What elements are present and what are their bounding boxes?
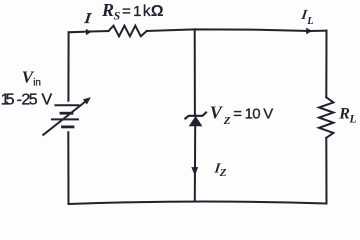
svg-text:in: in <box>33 78 41 89</box>
svg-text:15-25: 15-25 <box>1 92 38 109</box>
svg-text:= 10 V: = 10 V <box>233 106 273 123</box>
svg-text:R: R <box>101 0 114 20</box>
svg-text:Z: Z <box>223 115 231 127</box>
svg-text:L: L <box>306 16 313 27</box>
svg-text:L: L <box>349 114 357 126</box>
svg-text:V: V <box>210 103 224 123</box>
svg-text:R: R <box>338 106 350 123</box>
svg-text:k: k <box>143 3 151 20</box>
svg-text:= 1: = 1 <box>122 3 141 20</box>
svg-text:Z: Z <box>219 167 227 179</box>
svg-text:Ω: Ω <box>151 3 164 20</box>
svg-text:V: V <box>42 92 53 109</box>
svg-text:S: S <box>114 10 120 22</box>
